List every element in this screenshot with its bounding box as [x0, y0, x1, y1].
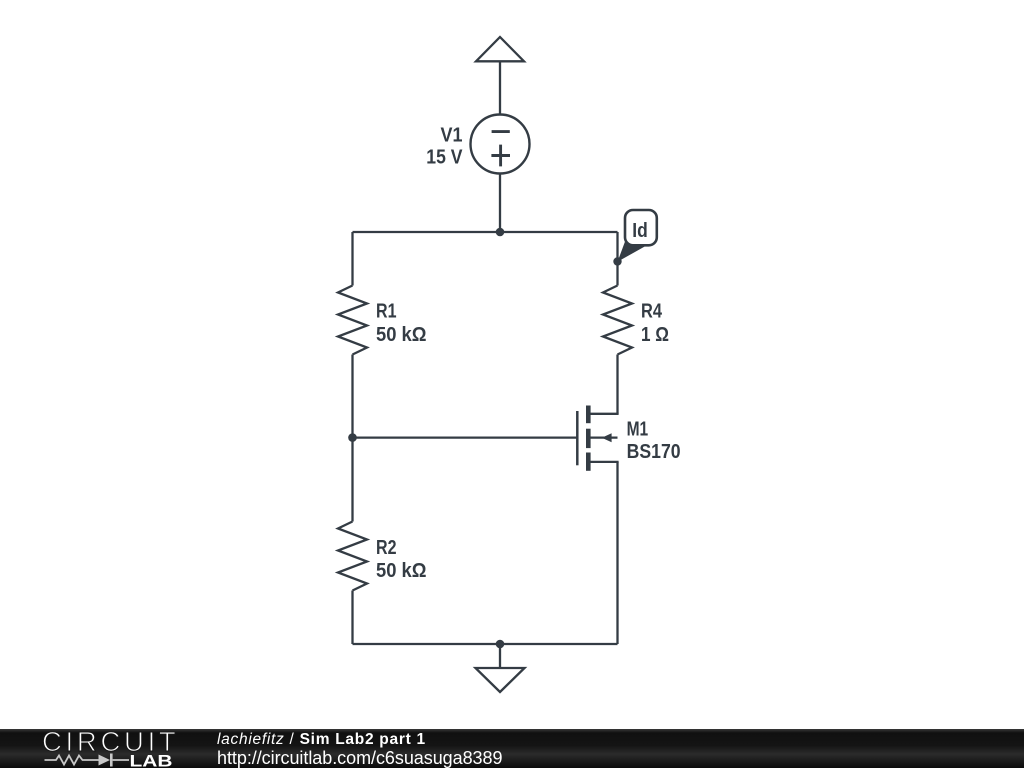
wire power flag to V1 top — [499, 61, 501, 114]
transistor M1 body arrow — [602, 433, 612, 442]
voltage source V1 circle — [471, 115, 530, 174]
svg-text:LAB: LAB — [130, 753, 173, 769]
CircuitLab logo — [0, 729, 190, 768]
transistor M1 drain contact — [588, 413, 618, 415]
ground symbol — [476, 668, 525, 692]
resistor R1 zigzag — [338, 286, 367, 355]
svg-text:50 kΩ: 50 kΩ — [376, 324, 427, 346]
transistor M1 channel bar bottom — [586, 453, 591, 471]
wire M1 source to bottom rail — [616, 462, 618, 644]
footer bar — [0, 729, 1024, 768]
logo resistor-diode symbol — [45, 756, 99, 765]
Id probe pointer wedge — [618, 238, 645, 262]
node dot gate (left rail / gate wire) — [348, 433, 357, 442]
wire V1 bottom to top node — [499, 174, 501, 233]
footer line 1: user / title — [217, 731, 426, 749]
transistor M1 channel bar middle — [586, 429, 591, 448]
svg-text:Id: Id — [632, 220, 648, 242]
transistor M1 body line — [591, 436, 618, 438]
logo wire to LAB — [113, 759, 129, 761]
svg-text:BS170: BS170 — [627, 441, 681, 463]
logo diode cathode bar — [110, 754, 113, 767]
transistor M1 source contact — [588, 461, 618, 463]
node dot Id probe — [613, 257, 621, 265]
wire ground stub — [499, 644, 501, 668]
node dot bottom (ground) — [496, 640, 505, 649]
svg-text:R2: R2 — [376, 537, 397, 559]
V1 plus sign — [491, 145, 510, 167]
svg-text:M1: M1 — [627, 419, 649, 441]
wire R4 bottom to M1 drain — [616, 355, 618, 414]
resistor R2 zigzag — [338, 522, 367, 591]
wire R2 bottom to bottom rail — [351, 591, 353, 645]
power flag (up triangle) above V1 — [476, 37, 524, 61]
transistor M1 gate line — [576, 411, 579, 465]
wire right rail upper (top rail to R4) — [616, 232, 618, 286]
footer line 2: url — [217, 748, 502, 769]
svg-text:50 kΩ: 50 kΩ — [376, 560, 427, 582]
node dot top (V1 / rails) — [496, 228, 505, 237]
wire gate (left rail to M1 gate) — [353, 436, 578, 438]
svg-text:V1: V1 — [441, 124, 463, 146]
wire top horizontal rail — [353, 231, 618, 233]
V1 minus sign — [492, 130, 510, 133]
svg-text:R4: R4 — [641, 301, 663, 323]
logo diode triangle — [99, 755, 111, 766]
wire R1 bottom to gate node — [351, 355, 353, 438]
transistor M1 channel bar top — [586, 406, 591, 424]
svg-text:R1: R1 — [376, 301, 397, 323]
svg-text:15 V: 15 V — [426, 147, 463, 169]
Id probe flag box — [625, 210, 657, 245]
wire bottom horizontal rail — [353, 643, 618, 645]
wire left rail upper (to R1) — [351, 232, 353, 286]
svg-text:1 Ω: 1 Ω — [641, 324, 669, 346]
resistor R4 zigzag — [603, 286, 632, 355]
wire left rail lower (gate node to R2) — [351, 438, 353, 522]
